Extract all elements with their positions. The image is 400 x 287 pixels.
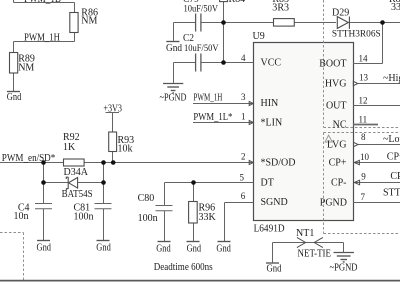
svg-text:10uF/50V: 10uF/50V xyxy=(184,5,219,15)
svg-text:Gnd: Gnd xyxy=(216,243,231,254)
svg-text:14: 14 xyxy=(359,54,369,64)
svg-text:33K: 33K xyxy=(199,212,217,223)
svg-text:5: 5 xyxy=(240,172,245,182)
svg-text:R84: R84 xyxy=(229,0,246,5)
svg-text:9: 9 xyxy=(361,171,366,181)
svg-text:STTH: STTH xyxy=(383,188,400,199)
svg-text:Gnd: Gnd xyxy=(156,243,171,254)
svg-text:HVG: HVG xyxy=(325,78,347,89)
svg-text:C80: C80 xyxy=(138,193,155,204)
svg-text:2: 2 xyxy=(241,152,246,162)
svg-text:100n: 100n xyxy=(74,212,94,223)
svg-text:10n: 10n xyxy=(14,211,29,222)
svg-text:CP+: CP+ xyxy=(329,157,347,168)
svg-text:~Low: ~Low xyxy=(383,134,400,145)
svg-text:PGND: PGND xyxy=(320,197,347,208)
svg-text:HIN: HIN xyxy=(261,98,279,109)
svg-text:C2: C2 xyxy=(183,33,194,44)
svg-text:Deadtime 600ns: Deadtime 600ns xyxy=(154,262,213,273)
svg-text:*SD/OD: *SD/OD xyxy=(261,157,296,168)
svg-text:SGND: SGND xyxy=(261,197,288,208)
svg-text:PWM_en/SD*: PWM_en/SD* xyxy=(2,153,56,164)
svg-text:D34A: D34A xyxy=(64,167,89,178)
svg-text:DT: DT xyxy=(261,177,274,188)
svg-text:~High: ~High xyxy=(383,73,400,84)
svg-text:Gnd: Gnd xyxy=(96,243,111,254)
svg-text:D29: D29 xyxy=(332,7,349,18)
svg-text:Gnd: Gnd xyxy=(37,243,52,254)
svg-text:10: 10 xyxy=(360,152,370,162)
svg-text:PWM_1B: PWM_1B xyxy=(24,0,61,5)
svg-text:3: 3 xyxy=(241,92,246,102)
svg-text:10k: 10k xyxy=(118,144,133,155)
svg-text:10uF/50V: 10uF/50V xyxy=(184,44,219,54)
svg-text:~PGND: ~PGND xyxy=(330,263,358,274)
svg-text:VCC: VCC xyxy=(261,57,282,68)
svg-text:NET-TIE: NET-TIE xyxy=(298,249,332,260)
svg-text:Gnd: Gnd xyxy=(7,92,21,103)
svg-text:BOOT: BOOT xyxy=(319,58,346,69)
svg-text:LVG: LVG xyxy=(327,139,347,150)
svg-text:CP-: CP- xyxy=(390,171,400,182)
svg-text:NM: NM xyxy=(81,16,97,27)
svg-text:PWM_1H: PWM_1H xyxy=(24,33,60,44)
svg-text:~PGND: ~PGND xyxy=(160,92,187,103)
svg-text:CP+: CP+ xyxy=(387,152,400,163)
svg-text:8: 8 xyxy=(361,132,366,142)
svg-text:L6491D: L6491D xyxy=(254,224,285,235)
svg-text:Gnd: Gnd xyxy=(267,264,282,275)
svg-text:NT1: NT1 xyxy=(296,228,314,239)
svg-text:1: 1 xyxy=(241,112,246,122)
svg-text:100n: 100n xyxy=(138,213,158,224)
svg-text:NC: NC xyxy=(333,119,347,130)
svg-text:U9: U9 xyxy=(253,31,265,42)
svg-text:CP-: CP- xyxy=(331,177,347,188)
svg-text:4: 4 xyxy=(241,53,246,63)
svg-text:+3V3: +3V3 xyxy=(103,103,122,114)
svg-text:Gnd: Gnd xyxy=(166,43,182,54)
svg-text:NM: NM xyxy=(18,63,34,74)
svg-text:PWM_1L*: PWM_1L* xyxy=(193,112,232,123)
svg-text:OUT: OUT xyxy=(326,100,347,111)
svg-text:12: 12 xyxy=(359,96,368,106)
svg-text:*LIN: *LIN xyxy=(261,117,283,128)
svg-text:6: 6 xyxy=(241,191,246,201)
svg-text:1K: 1K xyxy=(63,142,76,153)
svg-text:R85: R85 xyxy=(272,0,289,5)
svg-text:11: 11 xyxy=(359,115,368,125)
svg-text:BAT54S: BAT54S xyxy=(62,189,93,200)
svg-text:STTH3R06S: STTH3R06S xyxy=(332,30,381,40)
svg-text:7: 7 xyxy=(361,192,366,202)
svg-text:13: 13 xyxy=(359,73,369,83)
svg-text:R87: R87 xyxy=(389,0,400,5)
svg-text:Gnd: Gnd xyxy=(187,243,202,254)
svg-text:PWM_1H: PWM_1H xyxy=(193,92,222,103)
